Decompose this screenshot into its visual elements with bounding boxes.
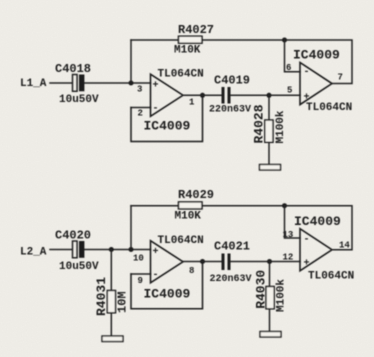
svg-text:220n63V: 220n63V: [210, 274, 252, 285]
wire output 14 frame back to node: [285, 206, 353, 250]
svg-text:C4021: C4021: [214, 240, 250, 254]
junction at R4030 top: [267, 259, 272, 264]
wire node to op-amp pin5: [269, 94, 300, 96]
junction at R4031 top: [109, 247, 114, 252]
wire output to C4019: [183, 94, 222, 96]
svg-text:+: +: [153, 247, 159, 258]
junction at pin10 input: [129, 247, 134, 252]
svg-text:10u50V: 10u50V: [59, 94, 99, 106]
svg-text:IC4009: IC4009: [293, 48, 340, 63]
wire node to op-amp pin12: [270, 261, 301, 263]
junction feedback to IC box bottom: [282, 203, 287, 208]
svg-text:TL064CN: TL064CN: [308, 271, 354, 283]
svg-text:3: 3: [137, 85, 142, 95]
svg-text:IC4009: IC4009: [294, 214, 341, 229]
wire junction up to feedback line: [130, 206, 132, 250]
op-amp U2B TL064CN (pins 13,12,14): [283, 214, 355, 283]
capacitor C4018: [55, 62, 99, 106]
wire pin9 (box top edge): [131, 273, 151, 275]
resistor R4029: [175, 188, 215, 223]
op-amp U1B TL064CN (pins 6,5,7): [286, 48, 352, 115]
svg-text:-: -: [153, 270, 159, 281]
svg-text:TL064CN: TL064CN: [158, 68, 204, 80]
svg-text:M100k: M100k: [275, 110, 287, 143]
wire node down to R4028: [268, 95, 270, 120]
junction at op-amp output: [200, 93, 205, 98]
wire pin13 from feedback node: [285, 206, 301, 238]
svg-text:M10K: M10K: [174, 45, 201, 57]
resistor R4031: [94, 277, 130, 316]
IC4009 frame around U2A: [131, 262, 203, 309]
svg-text:9: 9: [138, 276, 143, 286]
ground under R4031: [102, 336, 123, 342]
wire R4031 down from input: [110, 250, 112, 291]
svg-text:-: -: [304, 235, 310, 246]
ground under R4030: [260, 332, 281, 338]
wire R4028 to ground: [268, 142, 270, 164]
svg-text:+: +: [153, 81, 159, 92]
wire L2_A to C4020: [50, 249, 72, 251]
capacitor C4021: [210, 240, 252, 286]
resistor R4028: [252, 104, 288, 143]
svg-text:10M: 10M: [116, 291, 130, 313]
junction feedback to IC box: [282, 38, 287, 43]
junction at op-amp output pin8: [200, 259, 205, 264]
svg-text:C4020: C4020: [55, 229, 91, 243]
capacitor C4020: [55, 229, 99, 274]
svg-text:12: 12: [283, 253, 294, 263]
svg-text:R4027: R4027: [178, 23, 214, 37]
svg-text:10u50V: 10u50V: [59, 261, 99, 273]
svg-text:220n63V: 220n63V: [209, 105, 251, 116]
svg-text:TL064CN: TL064CN: [306, 102, 352, 114]
svg-text:C4019: C4019: [214, 74, 250, 88]
wire node down to R4030: [269, 262, 271, 287]
resistor R4030: [254, 270, 288, 312]
svg-text:M10K: M10K: [175, 211, 202, 223]
svg-text:R4028: R4028: [252, 104, 267, 143]
svg-text:10: 10: [133, 253, 144, 263]
wire output 7 frame back to node: [285, 40, 353, 84]
wire feedback top line: [131, 39, 285, 41]
IC4009 frame around U1A: [131, 95, 203, 141]
wire pin6 from feedback node: [285, 40, 301, 72]
capacitor C4019: [209, 74, 251, 116]
svg-text:1: 1: [189, 98, 195, 108]
wire pin2 (box top edge): [131, 107, 151, 109]
svg-text:2: 2: [138, 109, 143, 119]
svg-text:L2_A: L2_A: [20, 246, 47, 258]
wire C4021 to node: [231, 261, 270, 263]
svg-text:IC4009: IC4009: [144, 287, 191, 302]
svg-text:-: -: [304, 67, 310, 78]
svg-text:-: -: [153, 104, 159, 115]
svg-text:8: 8: [189, 266, 194, 276]
svg-text:TL064CN: TL064CN: [158, 235, 204, 247]
wire L1_A to C4018: [50, 82, 72, 84]
op-amp U2A TL064CN (pins 10,9,8): [133, 235, 204, 286]
wire C4019 to node: [231, 94, 270, 96]
wire C4020 to op-amp pin10: [85, 249, 151, 251]
svg-text:7: 7: [338, 73, 343, 83]
ground under R4028: [260, 165, 281, 171]
resistor R4027: [174, 23, 214, 57]
svg-text:L1_A: L1_A: [20, 78, 47, 90]
svg-text:+: +: [304, 259, 310, 270]
wire output to C4021: [183, 261, 222, 263]
wire feedback line bottom: [131, 205, 285, 207]
svg-text:IC4009: IC4009: [144, 119, 191, 134]
svg-text:5: 5: [287, 86, 292, 96]
svg-text:R4031: R4031: [94, 277, 109, 316]
svg-text:R4029: R4029: [178, 188, 214, 202]
svg-text:R4030: R4030: [254, 270, 269, 309]
wire junction up to feedback line: [130, 40, 132, 83]
op-amp U1A TL064CN (pins 3,2,1): [137, 68, 204, 118]
wire R4030 to ground: [269, 309, 271, 332]
junction at R4028 top: [267, 93, 272, 98]
wire R4031 to ground: [110, 313, 112, 336]
wire C4018 to op-amp pin3: [85, 82, 151, 84]
svg-text:M100k: M100k: [276, 279, 288, 312]
junction at pin3 input: [129, 81, 134, 86]
svg-text:C4018: C4018: [55, 62, 91, 76]
